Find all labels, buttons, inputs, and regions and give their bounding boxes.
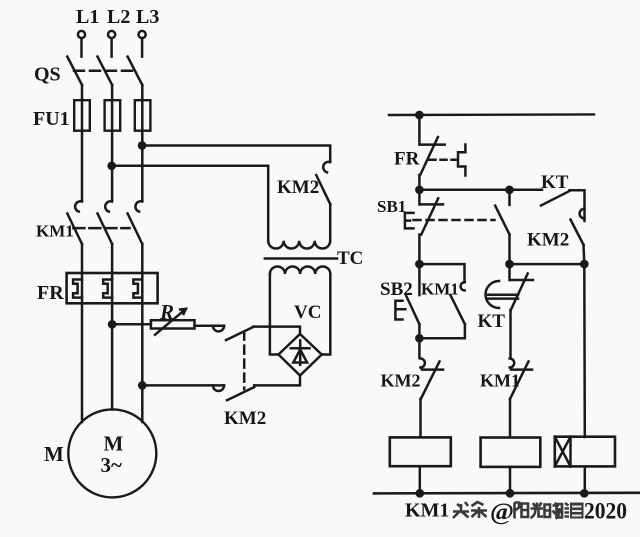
- node L3 terminal: [139, 31, 146, 57]
- pushbutton SB1 linkage dashed: [414, 219, 495, 222]
- node L1 terminal: [78, 31, 85, 57]
- fuse FU1 pole 3: [135, 100, 151, 131]
- svg-text:SB1: SB1: [377, 197, 406, 216]
- pushbutton SB1 NO contact second pole: [495, 190, 509, 264]
- rectifier VC bridge diamond: [279, 334, 322, 376]
- contactor KM1 pole 3: [128, 201, 143, 244]
- switch QS pole 1 blade: [67, 57, 82, 85]
- node junction SB1 SB2: [416, 261, 422, 267]
- svg-text:FR: FR: [394, 149, 420, 170]
- watermark char 能: [557, 503, 570, 518]
- contactor KM2 brake bottom contact: [213, 385, 254, 400]
- wire bottom supply rail: [374, 491, 640, 494]
- svg-text:KT: KT: [541, 172, 569, 193]
- time relay KT NC delayed contact: [510, 264, 534, 358]
- svg-text:FU1: FU1: [33, 108, 70, 130]
- wire L1 QS to fuse: [81, 85, 84, 100]
- wire SB2 junction down: [418, 338, 421, 358]
- watermark char 头: [453, 502, 469, 518]
- wire KM2 brake top to rectifier plus: [253, 327, 300, 335]
- watermark 头条 @阳光的能量2020: [453, 502, 487, 518]
- wire L2 tap to resistor: [112, 323, 151, 326]
- svg-text:2020: 2020: [584, 499, 627, 524]
- fuse FU1 pole 1: [74, 100, 90, 131]
- coil KT time relay: [555, 437, 615, 467]
- transformer TC secondary winding: [270, 266, 330, 274]
- svg-text:SB2: SB2: [380, 279, 413, 300]
- contactor KM1 pole 2: [98, 201, 113, 244]
- svg-text:@: @: [490, 500, 514, 526]
- wire KT coil to rail: [584, 466, 587, 493]
- node junction KM2 rail: [507, 490, 513, 496]
- thermal relay FR box: [67, 273, 158, 303]
- wire KT branch down to coil: [583, 264, 586, 437]
- time relay KT delay symbol: [486, 281, 519, 308]
- rectifier VC diode: [291, 340, 310, 364]
- switch QS pole 3 blade: [128, 57, 143, 85]
- node junction L3 brake tap: [139, 382, 145, 388]
- watermark char 光: [531, 503, 544, 519]
- thermal relay FR heater 2: [103, 273, 112, 303]
- resistor R: [151, 309, 195, 335]
- watermark char 的: [545, 503, 560, 519]
- wire L2 FR to motor: [111, 303, 114, 409]
- node junction rail KT branch: [506, 187, 512, 193]
- contactor KM1 NC interlock: [510, 359, 532, 438]
- wire L2 QS to fuse: [111, 85, 114, 100]
- wire top supply rail: [389, 113, 594, 116]
- wire L2 fuse to KM1: [111, 131, 114, 200]
- wire L3 QS to fuse: [141, 85, 144, 100]
- contactor KM1 pole 1: [67, 201, 82, 244]
- svg-text:L2: L2: [107, 6, 130, 28]
- pushbutton SB2 actuator: [395, 301, 405, 320]
- svg-text:KM1: KM1: [36, 222, 74, 241]
- svg-text:KM2: KM2: [527, 230, 569, 251]
- svg-text:KM2: KM2: [224, 408, 266, 429]
- wire L3 KM1 to FR: [141, 244, 144, 273]
- wire junction to KT NO branch: [510, 263, 585, 266]
- wire horizontal at 190: [419, 189, 542, 192]
- node junction KM1 rail: [417, 490, 423, 496]
- svg-text:KM1: KM1: [480, 371, 520, 391]
- node junction KT rail: [581, 490, 587, 496]
- pushbutton SB1 actuator: [405, 213, 414, 229]
- contactor KM1 self-holding contact branch: [419, 264, 465, 338]
- svg-text:KM1: KM1: [421, 280, 459, 299]
- watermark char 阳: [515, 503, 529, 519]
- contactor KM2 NC interlock: [420, 359, 443, 438]
- contactor KM2 main contact: [316, 162, 330, 241]
- wire L3 tap to KM2 brake contact: [142, 146, 330, 163]
- svg-text:3~: 3~: [101, 453, 123, 477]
- wire resistor to KM2 brake top contact: [195, 325, 225, 328]
- wire KM2 coil to rail: [509, 467, 512, 493]
- wire TC secondary right to rectifier: [322, 274, 331, 355]
- watermark char 量: [570, 503, 584, 519]
- node junction SB2 bottom: [416, 335, 422, 341]
- svg-text:QS: QS: [34, 64, 61, 86]
- svg-text:L1: L1: [76, 6, 99, 28]
- thermal relay FR reset symbol: [458, 145, 465, 176]
- switch QS pole 2 blade: [98, 57, 113, 85]
- pushbutton SB2 NO contact: [406, 264, 419, 338]
- coil KM1: [390, 437, 451, 466]
- node junction L2 brake tap: [109, 321, 115, 327]
- node junction SB1NO bottom: [506, 261, 512, 267]
- contactor KM1 linkage dashed: [73, 227, 129, 230]
- wire TC secondary left to rectifier: [270, 274, 279, 355]
- pushbutton SB1 NC contact: [419, 190, 443, 264]
- coil KM2: [481, 438, 541, 467]
- svg-text:KM2: KM2: [381, 371, 421, 391]
- svg-text:TC: TC: [337, 248, 363, 269]
- wire L2 KM1 to FR: [111, 244, 114, 273]
- time relay KT NO contact: [541, 190, 585, 221]
- svg-text:FR: FR: [37, 282, 64, 304]
- motor M circle: [68, 409, 156, 497]
- wire L2 tap to TC primary left: [112, 166, 269, 241]
- svg-text:VC: VC: [294, 302, 321, 323]
- svg-text:KT: KT: [478, 311, 506, 332]
- node junction rail FR: [416, 112, 422, 118]
- wire L1 FR to motor: [81, 303, 84, 422]
- contactor KM2 NO contact: [571, 220, 585, 265]
- node junction L2 tap: [109, 163, 115, 169]
- wire KM2 brake bottom to rectifier minus: [254, 376, 300, 386]
- svg-text:KM1: KM1: [405, 500, 449, 522]
- thermal relay FR reset dashed link: [430, 159, 458, 162]
- transformer TC core: [265, 257, 337, 260]
- contactor KM2 brake linkage dashed: [243, 332, 246, 389]
- thermal relay FR NC contact: [419, 115, 444, 190]
- node junction FR SB1: [416, 187, 422, 193]
- node junction KM2 NO bottom: [581, 261, 587, 267]
- contactor KM2 brake top contact: [213, 326, 253, 340]
- wire L3 fuse to KM1: [141, 131, 144, 200]
- fuse FU1 pole 2: [105, 100, 121, 131]
- wire L1 fuse to KM1: [81, 131, 84, 200]
- thermal relay FR heater 1: [73, 273, 82, 303]
- wire L3 FR to motor: [141, 303, 144, 422]
- node junction L3 tap: [139, 142, 145, 148]
- svg-text:KM2: KM2: [277, 177, 319, 198]
- svg-text:M: M: [44, 442, 64, 466]
- transformer TC primary winding: [268, 241, 330, 249]
- svg-text:L3: L3: [136, 6, 159, 28]
- svg-text:R: R: [159, 300, 174, 324]
- watermark char 条: [471, 502, 487, 518]
- wire L1 KM1 to FR: [81, 244, 84, 273]
- switch QS linkage dashed: [74, 70, 136, 73]
- node L2 terminal: [108, 31, 115, 57]
- thermal relay FR heater 3: [133, 273, 142, 303]
- wire L3 tap to KM2 brake bottom contact: [142, 384, 224, 387]
- wire KM1 coil to rail: [419, 466, 422, 493]
